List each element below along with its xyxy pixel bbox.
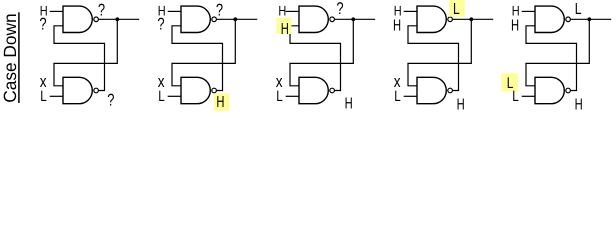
circuit 4: label L on net Q highlight: [449, 0, 465, 17]
circuit 2: bottom NAND gate: [181, 77, 210, 103]
circuit 4: junction dot on net Q: [469, 17, 473, 21]
circuit 5: top NAND gate: [535, 6, 564, 32]
circuit 3: bottom NAND gate inversion bubble: [330, 88, 335, 93]
circuit 2: wire net Qbar feedback from bottom gate bubble to top gate pin 2: [172, 26, 223, 91]
svg-text:?: ?: [157, 14, 164, 33]
circuit 3: top NAND gate inversion bubble: [330, 17, 335, 22]
circuit 5: wire input L to bottom gate pin 2: [522, 95, 535, 97]
svg-text:H: H: [511, 17, 519, 34]
svg-text:Case Down: Case Down: [0, 13, 20, 103]
circuit 4: wire net Q output to right: [452, 18, 493, 20]
svg-text:L: L: [512, 88, 519, 105]
circuit 5: label L on bottom gate pin 1 highlight: [501, 73, 518, 91]
circuit 3: junction dot on net Q: [351, 17, 355, 21]
circuit 2: label H on net Qbar highlight: [214, 93, 230, 111]
svg-text:H: H: [216, 94, 224, 111]
circuit 4: bottom NAND gate: [417, 77, 446, 103]
svg-text:L: L: [575, 1, 582, 18]
circuit 1: wire net Q feedback down to bottom gate pin 1: [54, 19, 117, 86]
circuit 4: top NAND gate inversion bubble: [448, 17, 453, 22]
circuit 1: wire input L to bottom gate pin 2: [50, 95, 63, 97]
svg-text:L: L: [40, 88, 47, 105]
svg-text:H: H: [512, 3, 520, 19]
svg-text:H: H: [394, 3, 402, 19]
svg-text:H: H: [393, 17, 401, 34]
circuit 2: wire net Q output to right: [216, 18, 257, 20]
svg-text:L: L: [276, 88, 283, 105]
svg-text:H: H: [281, 21, 289, 38]
circuit 2: top NAND gate: [181, 6, 210, 32]
circuit 1: junction dot on net Q: [115, 17, 119, 21]
circuit 5: wire input H to top gate pin 1: [522, 10, 535, 12]
svg-text:L: L: [453, 1, 460, 18]
circuit 5: wire net Qbar feedback from bottom gate bubble to top gate pin 2: [526, 26, 577, 91]
circuit 5: wire net Q output to right: [570, 18, 611, 20]
circuit 3: wire net Qbar feedback from bottom gate bubble to top gate pin 2: [290, 26, 341, 91]
circuit 4: wire net Q feedback down to bottom gate pin 1: [408, 19, 471, 86]
circuit 5: bottom NAND gate: [535, 77, 564, 103]
circuit 2: bottom NAND gate inversion bubble: [212, 88, 217, 93]
svg-text:H: H: [575, 97, 583, 112]
svg-text:H: H: [457, 97, 465, 112]
svg-text:H: H: [278, 3, 286, 19]
circuit 3: wire input L to bottom gate pin 2: [286, 95, 299, 97]
circuit 5: wire net Q feedback down to bottom gate pin 1: [526, 19, 589, 86]
circuit 3: wire input H to top gate pin 1: [286, 10, 299, 12]
svg-text:?: ?: [98, 1, 105, 20]
circuit 4: wire input H to top gate pin 1: [404, 10, 417, 12]
circuit 2: junction dot on net Q: [233, 17, 237, 21]
circuit 4: top NAND gate: [417, 6, 446, 32]
circuit 5: bottom NAND gate inversion bubble: [566, 88, 571, 93]
circuit 2: wire net Q feedback down to bottom gate pin 1: [172, 19, 235, 86]
circuit 1: bottom NAND gate: [63, 77, 92, 103]
circuit 4: wire net Qbar feedback from bottom gate bubble to top gate pin 2: [408, 26, 459, 91]
caption underline: [18, 12, 20, 103]
circuit 1: top NAND gate inversion bubble: [94, 17, 99, 22]
circuit 1: top NAND gate: [63, 6, 92, 32]
svg-text:?: ?: [216, 1, 223, 20]
circuit 1: wire net Qbar feedback from bottom gate bubble to top gate pin 2: [54, 26, 105, 91]
circuit 1: wire input H to top gate pin 1: [50, 10, 63, 12]
svg-text:L: L: [158, 88, 165, 105]
svg-text:?: ?: [336, 0, 343, 18]
circuit 1: wire net Q output to right: [98, 18, 139, 20]
svg-text:?: ?: [107, 90, 114, 109]
circuit 3: label H on top gate pin 2 highlight: [277, 18, 292, 34]
svg-text:H: H: [345, 96, 353, 111]
circuit 3: bottom NAND gate: [299, 77, 328, 103]
svg-text:L: L: [394, 88, 401, 105]
circuit 3: wire net Q output to right: [334, 18, 375, 20]
circuit 5: junction dot on net Q: [587, 17, 591, 21]
circuit 2: wire input H to top gate pin 1: [168, 10, 181, 12]
circuit 4: bottom NAND gate inversion bubble: [448, 88, 453, 93]
circuit 4: wire input L to bottom gate pin 2: [404, 95, 417, 97]
circuit 3: wire net Q feedback down to bottom gate pin 1: [290, 19, 353, 86]
circuit 1: bottom NAND gate inversion bubble: [94, 88, 99, 93]
circuit 5: top NAND gate inversion bubble: [566, 17, 571, 22]
svg-text:?: ?: [39, 14, 46, 33]
circuit 3: top NAND gate: [299, 6, 328, 32]
circuit 2: top NAND gate inversion bubble: [212, 17, 217, 22]
circuit 2: wire input L to bottom gate pin 2: [168, 95, 181, 97]
